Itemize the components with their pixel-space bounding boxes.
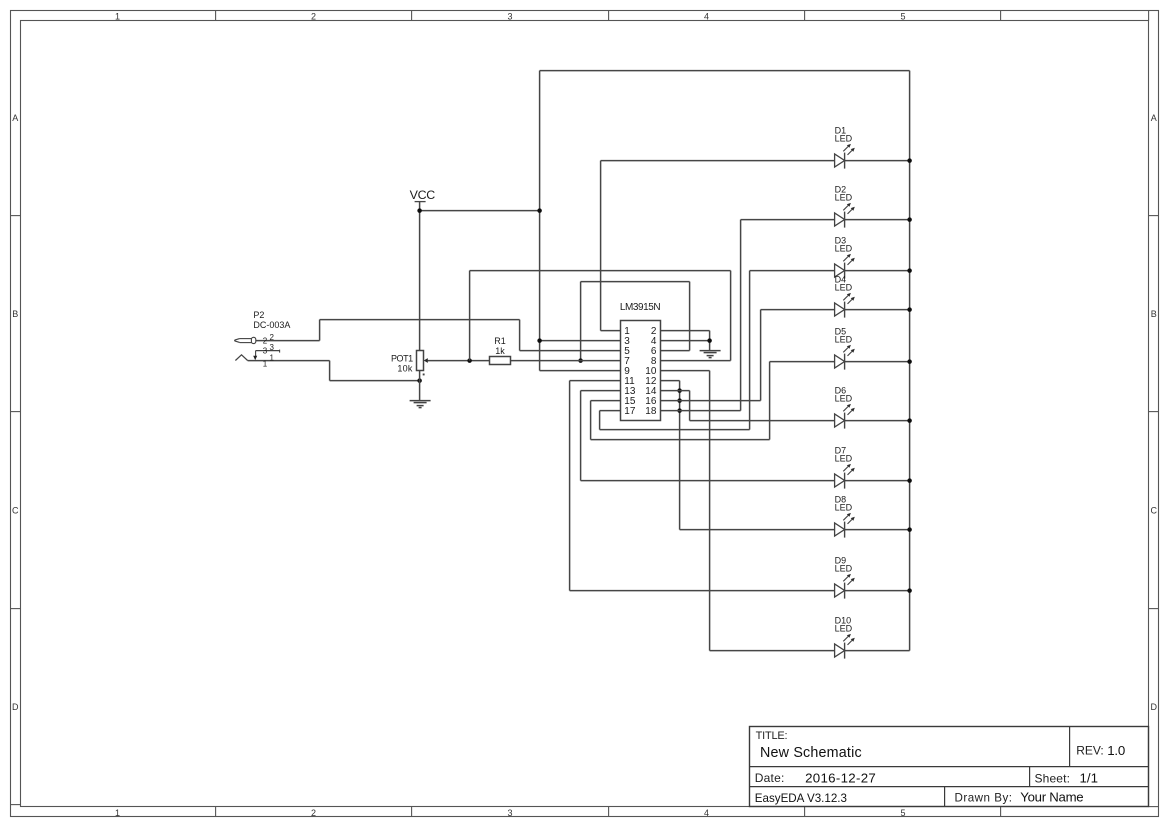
svg-text:R1: R1 [494, 336, 506, 346]
svg-text:10k: 10k [397, 363, 413, 373]
svg-text:3: 3 [507, 808, 512, 818]
svg-text:1: 1 [115, 11, 120, 21]
svg-text:4: 4 [704, 808, 709, 818]
svg-text:2: 2 [311, 808, 316, 818]
svg-text:1.0: 1.0 [1107, 743, 1125, 758]
svg-text:LED: LED [835, 335, 853, 345]
svg-text:1: 1 [270, 353, 275, 362]
svg-text:Date:: Date: [755, 771, 785, 785]
svg-text:LED: LED [835, 244, 853, 254]
svg-text:LED: LED [835, 454, 853, 464]
svg-text:C: C [12, 506, 19, 516]
svg-text:EasyEDA V3.12.3: EasyEDA V3.12.3 [755, 792, 847, 805]
svg-text:1: 1 [263, 359, 268, 368]
svg-text:17: 17 [624, 406, 636, 417]
svg-text:LED: LED [835, 283, 853, 293]
svg-text:TITLE:: TITLE: [756, 730, 788, 742]
svg-text:D: D [1151, 702, 1158, 712]
svg-text:1: 1 [115, 808, 120, 818]
svg-text:2: 2 [311, 11, 316, 21]
svg-text:2: 2 [263, 336, 268, 345]
svg-text:3: 3 [270, 343, 275, 352]
svg-text:1k: 1k [495, 346, 505, 356]
svg-text:VCC: VCC [410, 188, 436, 202]
svg-text:18: 18 [645, 406, 657, 417]
svg-text:LED: LED [835, 394, 853, 404]
svg-text:2016-12-27: 2016-12-27 [805, 771, 876, 786]
svg-text:5: 5 [900, 11, 905, 21]
svg-text:DC-003A: DC-003A [253, 320, 290, 330]
svg-text:LM3915N: LM3915N [620, 302, 660, 313]
svg-text:A: A [1151, 113, 1157, 123]
svg-text:LED: LED [835, 193, 853, 203]
svg-text:New Schematic: New Schematic [760, 745, 862, 761]
svg-text:LED: LED [835, 134, 853, 144]
svg-text:B: B [1151, 309, 1157, 319]
svg-text:LED: LED [835, 564, 853, 574]
svg-text:REV:: REV: [1076, 744, 1104, 758]
svg-text:C: C [1151, 506, 1158, 516]
svg-text:D: D [12, 702, 19, 712]
svg-text:Drawn By:: Drawn By: [955, 791, 1013, 804]
svg-text:3: 3 [507, 11, 512, 21]
svg-text:3: 3 [263, 346, 268, 355]
svg-text:Sheet:: Sheet: [1035, 771, 1071, 785]
svg-text:4: 4 [704, 11, 709, 21]
svg-text:5: 5 [900, 808, 905, 818]
svg-text:LED: LED [835, 624, 853, 634]
svg-text:A: A [12, 113, 18, 123]
svg-text:LED: LED [835, 503, 853, 513]
svg-text:2: 2 [270, 333, 275, 342]
svg-text:1/1: 1/1 [1080, 771, 1099, 786]
svg-text:P2: P2 [253, 310, 264, 320]
svg-text:Your Name: Your Name [1020, 790, 1083, 805]
svg-text:POT1: POT1 [391, 354, 413, 364]
svg-text:B: B [12, 309, 18, 319]
